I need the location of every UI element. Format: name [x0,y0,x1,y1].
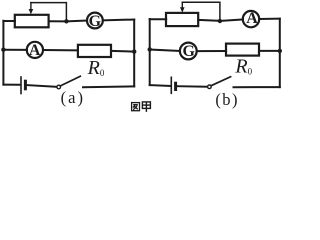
switch S (a) [57,76,80,89]
galvanometer G (a) [87,13,103,29]
svg-text:A: A [29,42,41,59]
ammeter A (a) [27,42,43,58]
resistor R0 box (b) [226,44,259,56]
wire: R0 to right node (a) [111,50,134,53]
node: junction dot top (a) [64,19,68,23]
galvanometer G (b) [180,43,197,60]
ammeter A (b) [243,11,259,27]
rheostat slider arrow (b) [180,2,185,12]
wire: left node to galvanometer (b) [150,50,180,51]
wire: switch to bottom right (b) [234,86,280,88]
wire: G to R0 (b) [197,50,226,52]
rheostat slider arrow (a) [29,3,34,15]
wire: rheostat right to ammeter (b) [198,19,243,21]
node: junction dot left (a) [1,48,5,52]
resistor R0 box (a) [78,45,111,57]
wire: top-left lead to rheostat (b) [150,18,167,20]
node: junction dot left (b) [148,47,152,51]
wire: switch to bottom right (a) [83,85,134,88]
battery cell (a) [21,77,25,94]
wire: slider top link (b) [182,2,220,21]
wire: top-left lead to rheostat (a) [3,20,15,22]
wire: rheostat right to galvanometer (a) [49,20,87,23]
wire: ammeter to R0 (a) [43,49,78,51]
wire: left node to ammeter (a) [3,49,27,51]
wire: G to right vertical (a) [103,19,134,22]
svg-text:(a): (a) [61,88,85,107]
svg-text:(b): (b) [215,90,239,109]
wire: battery to switch (a) [27,85,57,87]
svg-text:G: G [89,13,102,30]
battery cell (b) [171,77,175,93]
svg-text:A: A [246,10,258,27]
wire: bottom left to battery (b) [150,84,171,87]
node: junction dot right (a) [132,49,136,53]
wire: bottom left to battery (a) [3,84,20,86]
svg-text:G: G [182,43,195,60]
label: caption 图甲 (drawn glyphs) [132,102,151,112]
wire: right vertical (a) [133,20,135,87]
switch S (b) [208,77,231,89]
wire: ammeter to right vertical (b) [259,18,280,20]
wire: battery to switch (b) [177,85,207,88]
resistor (rheostat body) R (b) [166,13,198,26]
wire: slider top link (a) [31,3,67,22]
node: junction dot top (b) [218,19,222,23]
wire: R0 to right node (b) [259,50,280,52]
resistor (rheostat body) R (a) [15,15,49,27]
wire: left vertical (a) [2,21,4,85]
glyph 甲 [142,102,150,112]
glyph 图 [132,103,140,111]
wire: right vertical (b) [279,19,281,87]
node: junction dot right (b) [278,49,282,53]
wire: left vertical (b) [149,19,151,85]
